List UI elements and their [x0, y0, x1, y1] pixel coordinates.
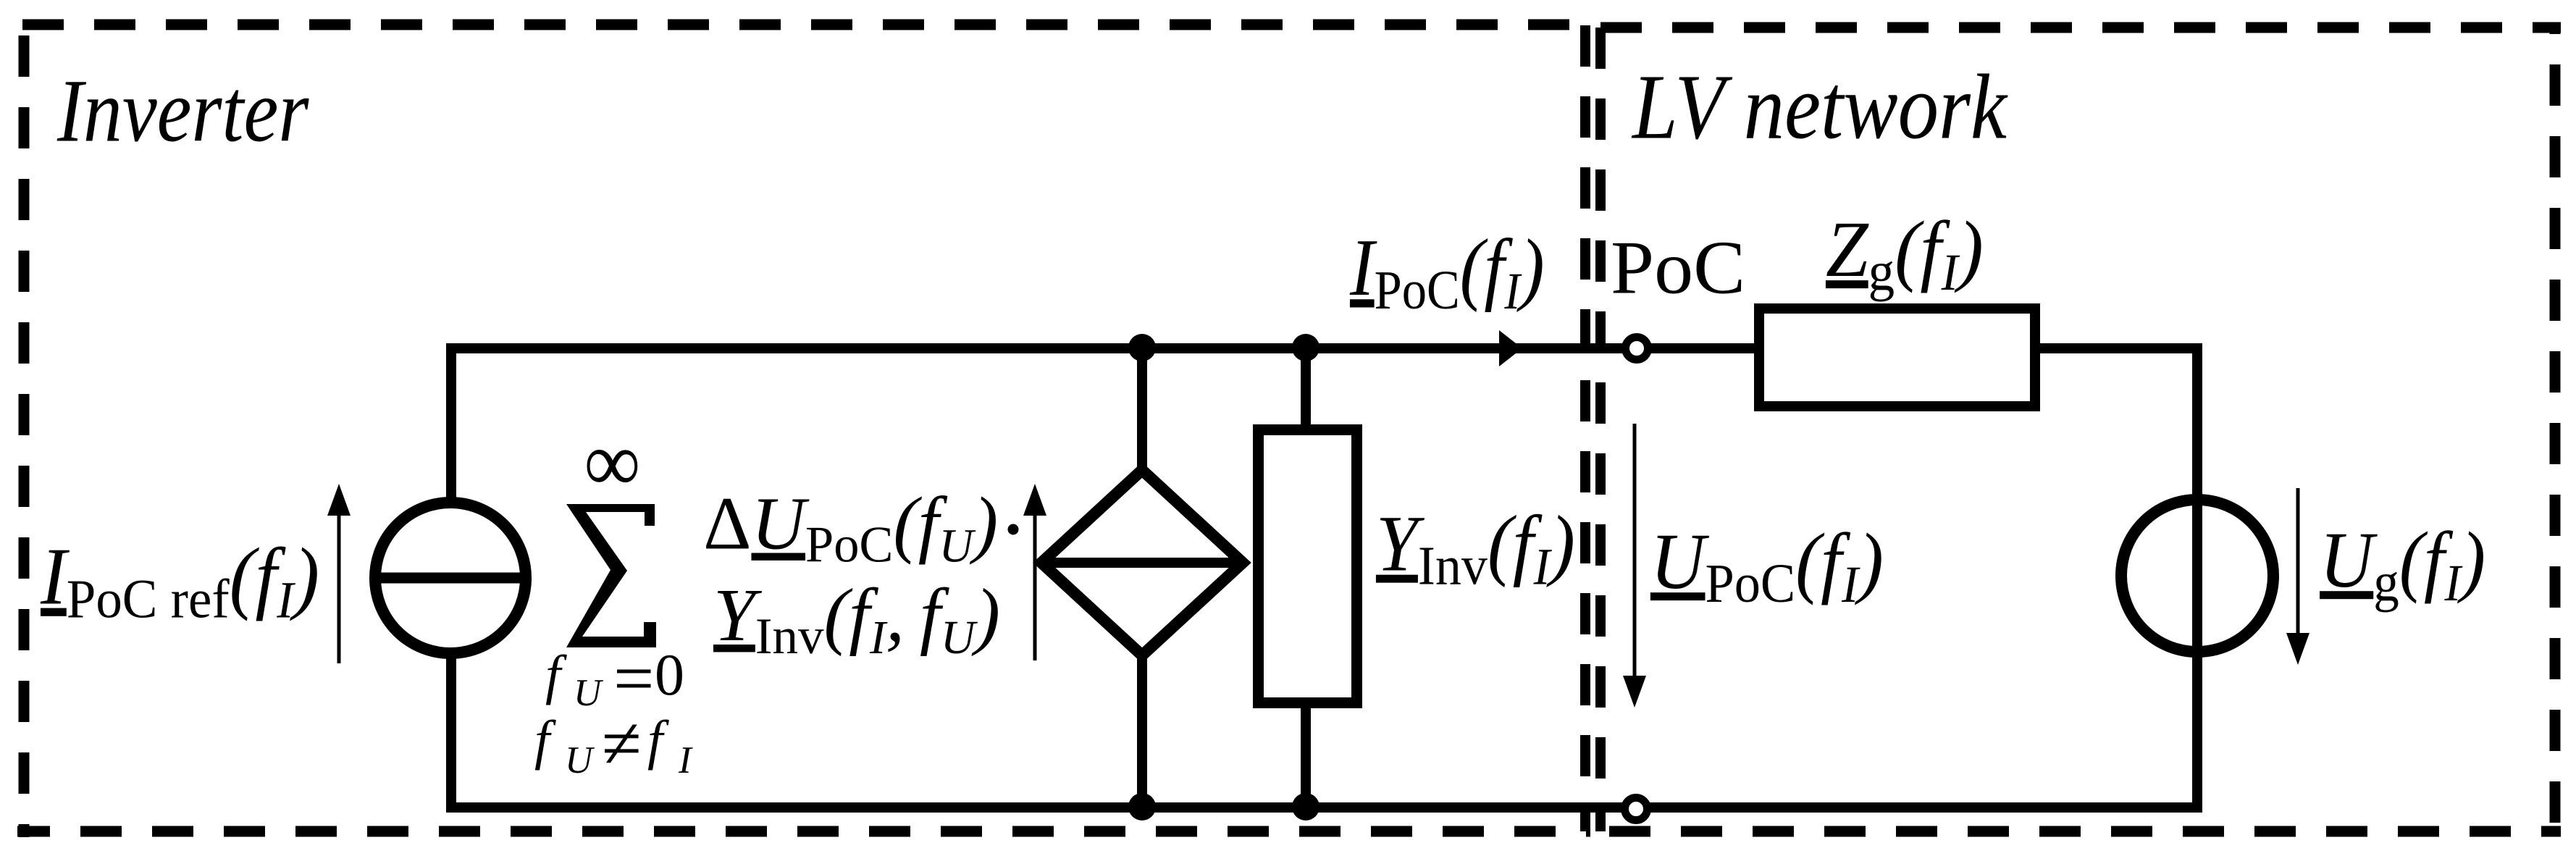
dependent current source diamond: [1041, 470, 1243, 655]
label: U_g(f_I): [2320, 516, 2485, 613]
svg-text:Zg(fI): Zg(fI): [1826, 206, 1984, 302]
dependent source horizontal bar: [1043, 558, 1241, 568]
label: Y_Inv(f_I, f_U): [713, 574, 1000, 665]
arrow down for U_PoC: [1623, 424, 1646, 708]
wire: dependent source top lead: [1137, 343, 1147, 478]
wire: top rail from Z_g to right corner: [2035, 343, 2202, 353]
wire: top rail from current source to Z_g: [446, 343, 1759, 353]
Inverter box dashed border bottom: [17, 826, 1590, 837]
svg-text:Ug(fI): Ug(fI): [2320, 516, 2485, 613]
label: Delta U_PoC(f_U) multiplied: [703, 482, 998, 573]
svg-text:Inverter: Inverter: [56, 62, 309, 161]
label: Y_Inv(f_I): [1376, 500, 1575, 597]
wire: bottom rail: [446, 802, 2202, 813]
label: I_PoC(f_I) on rail: [1349, 223, 1545, 321]
junction dot bottom right: [1292, 793, 1320, 821]
svg-text:≠: ≠: [602, 703, 642, 784]
label: sum infinity: [584, 414, 640, 510]
label: multiplication dot: [1008, 524, 1019, 535]
Inverter box dashed border right (left bar of double boundary): [1580, 25, 1590, 831]
current source I_PoC ref circle: [375, 503, 526, 653]
LV network box dashed border top: [1600, 22, 2561, 33]
label: U_PoC(f_I): [1650, 518, 1884, 615]
junction dot top right: [1292, 334, 1320, 361]
arrow up beside I_PoC ref source: [327, 484, 351, 663]
svg-text:PoC: PoC: [1611, 226, 1745, 310]
sum sigma symbol: [566, 504, 656, 647]
wire: current source bottom lead: [446, 652, 456, 813]
wire: right vertical through voltage source U_g: [2192, 343, 2202, 813]
wire: admittance Y_Inv top lead: [1301, 343, 1311, 431]
svg-text:I: I: [678, 739, 693, 781]
current source horizontal bar: [372, 573, 529, 584]
junction dot top left: [1128, 334, 1156, 361]
svg-text:LV network: LV network: [1631, 56, 2008, 159]
arrow down for U_g: [2286, 488, 2309, 665]
svg-text:∞: ∞: [584, 414, 640, 510]
wire: dependent source bottom lead: [1137, 648, 1147, 807]
svg-text:0: 0: [655, 642, 684, 708]
voltage source U_g circle: [2121, 500, 2273, 652]
label: sum lower limit f_U=0: [545, 638, 684, 718]
wire: admittance Y_Inv bottom lead: [1301, 702, 1311, 807]
svg-text:U: U: [574, 672, 604, 714]
label: LV network: [1631, 56, 2008, 159]
current arrow on top rail toward PoC: [1499, 330, 1522, 366]
svg-text:U: U: [565, 739, 595, 781]
arrow up beside dependent source: [1023, 484, 1046, 660]
label: Inverter: [56, 62, 309, 161]
label: Z_g(f_I): [1826, 206, 1984, 302]
label: sum condition f_U != f_I: [534, 703, 693, 784]
LV network box dashed border right: [2550, 22, 2561, 837]
LV network box dashed border bottom: [1595, 826, 2561, 837]
Inverter box dashed border left: [19, 20, 30, 837]
PoC terminal node top (open circle): [1626, 337, 1648, 360]
admittance Y_Inv rectangle: [1259, 430, 1357, 703]
PoC terminal node bottom (open circle): [1625, 798, 1648, 821]
LV network box dashed border left (right bar of double boundary): [1595, 28, 1606, 831]
junction dot bottom left: [1128, 793, 1156, 821]
impedance Z_g rectangle: [1759, 309, 2035, 406]
label: I_PoC ref (f_I): [40, 532, 319, 630]
wire: current source top lead: [446, 343, 456, 503]
label: PoC: [1611, 226, 1745, 310]
Inverter box dashed border top: [22, 20, 1590, 30]
